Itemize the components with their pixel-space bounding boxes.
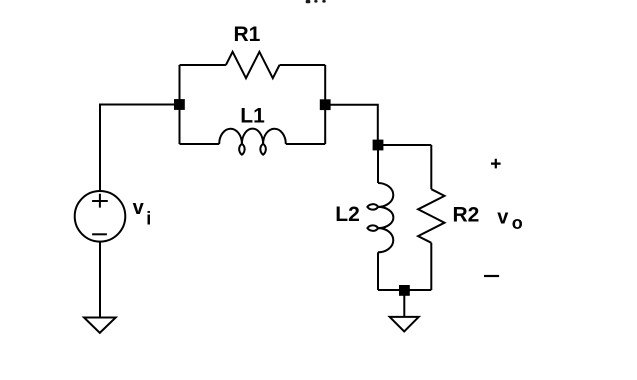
top rail of L2/R2 group — [378, 144, 431, 146]
svg-text:L1: L1 — [240, 104, 265, 127]
wire R2 top — [430, 145, 432, 189]
ground (left) — [84, 318, 116, 333]
node A (left junction, filled square) — [174, 99, 185, 110]
resistor R2 — [418, 189, 444, 243]
resistor R1 — [226, 52, 280, 78]
plus sign inside source — [92, 194, 108, 208]
wire R2 bottom — [430, 243, 432, 290]
wire from node B to node C — [325, 105, 378, 145]
inductor L1 — [219, 129, 286, 155]
minus sign inside source — [92, 233, 107, 235]
svg-text:L2: L2 — [335, 203, 360, 226]
svg-text:v: v — [133, 197, 145, 219]
svg-text:i: i — [146, 209, 151, 229]
svg-text:R1: R1 — [234, 23, 261, 46]
output minus sign — [484, 275, 499, 277]
svg-text:v: v — [497, 207, 509, 229]
bottom rail wires to L1 — [180, 143, 326, 145]
ground (right) — [390, 317, 419, 332]
label vi — [133, 197, 152, 229]
svg-text:o: o — [512, 213, 523, 233]
wire from source bottom to ground — [99, 242, 101, 318]
wire node D to ground — [403, 290, 405, 317]
right bar of R1/L1 parallel group — [324, 65, 326, 144]
node C (top of L2/R2 group) — [373, 140, 384, 151]
output plus sign — [491, 159, 501, 169]
top rail wires to R1 — [180, 64, 326, 66]
node D (bottom junction to ground) — [399, 285, 410, 296]
wire node C down to L2 — [377, 145, 379, 183]
bottom rail of L2/R2 group — [378, 289, 431, 291]
cut-off text remnant at top — [306, 0, 326, 3]
svg-text:R2: R2 — [453, 204, 480, 227]
inductor L2 — [367, 183, 393, 252]
node B (right junction of parallel group) — [320, 99, 331, 110]
wire L2 bottom down to bottom rail — [377, 252, 379, 290]
wire from source top to node A — [100, 105, 179, 192]
voltage source vi circle — [75, 191, 126, 242]
label vo — [497, 207, 523, 233]
left bar of R1/L1 parallel group — [179, 65, 181, 144]
